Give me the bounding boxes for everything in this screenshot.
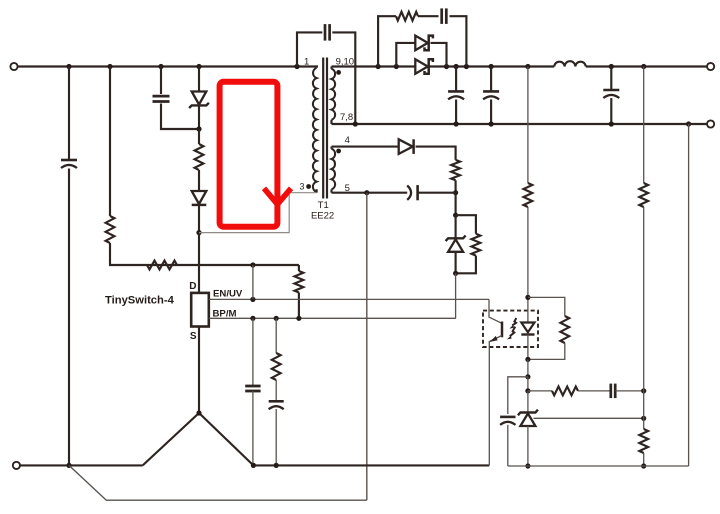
svg-text:7,8: 7,8 bbox=[340, 112, 353, 123]
svg-text:TinySwitch-4: TinySwitch-4 bbox=[105, 294, 175, 306]
svg-text:S: S bbox=[190, 331, 197, 342]
svg-text:T1: T1 bbox=[318, 200, 329, 211]
svg-text:3: 3 bbox=[299, 181, 304, 191]
svg-text:1: 1 bbox=[304, 57, 309, 68]
svg-text:D: D bbox=[189, 281, 196, 292]
svg-text:4: 4 bbox=[345, 135, 350, 146]
svg-text:EE22: EE22 bbox=[311, 210, 334, 221]
svg-text:5: 5 bbox=[345, 183, 350, 194]
svg-text:9,10: 9,10 bbox=[336, 57, 355, 68]
svg-text:EN/UV: EN/UV bbox=[213, 288, 243, 299]
